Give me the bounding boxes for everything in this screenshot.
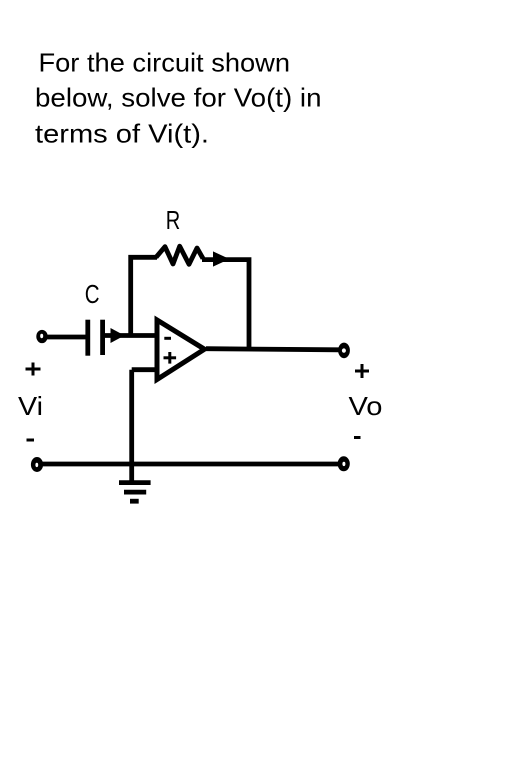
svg-text:Vo: Vo	[349, 391, 383, 421]
svg-text:below, solve for Vo(t) in: below, solve for Vo(t) in	[35, 83, 322, 113]
svg-text:Vi: Vi	[18, 391, 43, 421]
svg-text:terms of Vi(t).: terms of Vi(t).	[35, 119, 209, 149]
svg-text:For the circuit shown: For the circuit shown	[39, 48, 291, 78]
svg-text:C: C	[85, 279, 100, 309]
svg-text:R: R	[166, 205, 181, 235]
